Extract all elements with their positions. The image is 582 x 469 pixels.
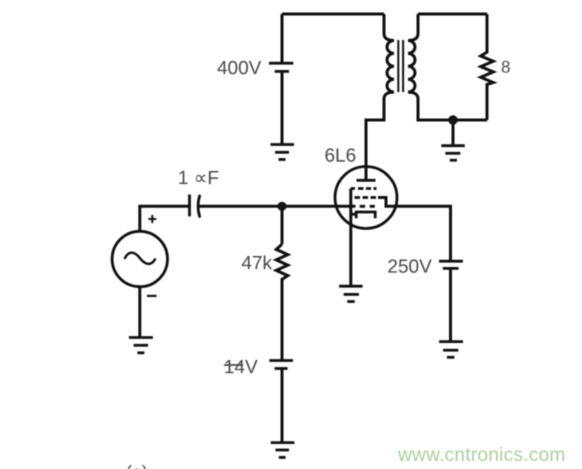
svg-text:(a): (a) [126,462,148,469]
svg-text:14V: 14V [224,357,258,378]
svg-text:400V: 400V [217,58,262,79]
svg-text:www.cntronics.com: www.cntronics.com [397,445,566,466]
svg-text:250V: 250V [387,257,432,278]
svg-text:8: 8 [501,58,510,77]
svg-text:6L6: 6L6 [324,146,356,167]
svg-text:1 ∝F: 1 ∝F [178,168,219,189]
svg-text:47k: 47k [241,253,272,274]
